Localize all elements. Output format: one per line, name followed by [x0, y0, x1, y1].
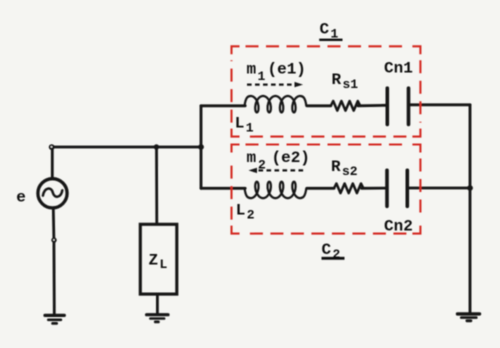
- label C1: [319, 21, 342, 42]
- svg-text:L: L: [236, 202, 246, 220]
- junction: riser tap: [198, 144, 204, 150]
- capacitor Cn2: [387, 170, 407, 206]
- inductor L1: [245, 96, 307, 112]
- wire: right vertical bus to ground: [469, 105, 472, 314]
- svg-text:1: 1: [258, 69, 266, 84]
- label m1 (e1): [247, 60, 306, 84]
- resistor Rs2: [334, 184, 363, 194]
- svg-text:R: R: [332, 71, 342, 89]
- label Cn1: [384, 60, 413, 78]
- arrow: m1 direction dashed right: [247, 82, 303, 87]
- label e: [16, 189, 26, 207]
- capacitor Cn1: [387, 88, 408, 124]
- load ZL: rectangle: [140, 224, 177, 294]
- wire: lower branch Cn2 to right bus: [409, 187, 470, 190]
- svg-text:m: m: [247, 60, 257, 78]
- wire: lower branch L2 to Rs2: [307, 187, 334, 190]
- svg-text:(e1): (e1): [268, 60, 306, 78]
- ground: right bus: [458, 314, 480, 321]
- label Rs1: [332, 71, 359, 92]
- label C2: [322, 241, 345, 262]
- svg-text:L: L: [160, 257, 168, 272]
- svg-text:L: L: [235, 115, 245, 133]
- wire: upper branch L1 to Rs1: [307, 104, 331, 107]
- label L1: [235, 115, 254, 136]
- svg-text:s1: s1: [343, 77, 359, 92]
- label m2 (e2): [247, 149, 310, 173]
- svg-text:e: e: [16, 189, 26, 207]
- wire: upper branch Rs1 to Cn1: [358, 104, 386, 107]
- svg-text:1: 1: [246, 121, 254, 136]
- svg-text:C: C: [322, 241, 332, 259]
- source e: AC generator: [38, 179, 67, 208]
- svg-text:2: 2: [247, 208, 255, 223]
- wire: source top lead: [51, 148, 54, 179]
- wire: upper branch riser to L1: [201, 104, 245, 107]
- wire: lower branch riser to L2: [201, 187, 245, 190]
- node: input terminal open circle: [49, 144, 55, 150]
- label Cn2: [384, 218, 413, 236]
- svg-text:s2: s2: [342, 164, 358, 179]
- dashed box C2: [232, 145, 421, 234]
- dashed box C1: [232, 46, 421, 136]
- wire: upper branch Cn1 to right bus: [410, 103, 470, 106]
- wire: ZL bottom lead to ground: [156, 294, 159, 314]
- label Rs2: [331, 158, 358, 179]
- ground: below source: [45, 315, 64, 323]
- ground: below ZL: [147, 315, 168, 322]
- wire: ZL branch vertical from junction to ZL top: [155, 147, 158, 224]
- svg-text:R: R: [331, 158, 341, 176]
- svg-text:C: C: [320, 21, 330, 39]
- junction: lower branch on right bus: [467, 185, 473, 191]
- wire: left riser joining upper and lower branches: [200, 106, 203, 189]
- inductor L2: [245, 182, 307, 198]
- svg-text:(e2): (e2): [272, 149, 310, 167]
- wire: main top horizontal from source node to branch riser: [52, 146, 201, 149]
- svg-text:m: m: [247, 149, 257, 167]
- node: terminal below source: [51, 237, 56, 242]
- junction: ZL tap: [154, 144, 159, 149]
- svg-text:Z: Z: [149, 252, 159, 270]
- resistor Rs1: [331, 101, 360, 111]
- wire: source bottom lead down through node to ground: [53, 208, 54, 315]
- label L2: [236, 202, 255, 223]
- label ZL: [149, 252, 168, 273]
- wire: lower branch Rs2 to Cn2: [362, 187, 386, 190]
- arrow: m2 direction dashed left: [249, 168, 305, 173]
- svg-text:Cn1: Cn1: [384, 60, 413, 78]
